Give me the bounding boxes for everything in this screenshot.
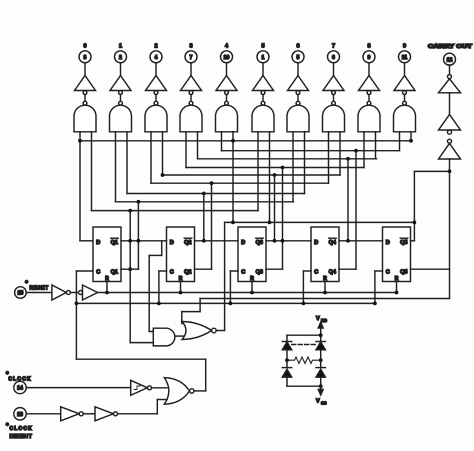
decode AND gate G2: [145, 105, 167, 132]
inhibit buffer U4 bubble: [114, 412, 118, 416]
wire FF4 R stub: [324, 282, 326, 293]
wire clock feed vertical: [75, 303, 77, 359]
junction reset line at R stub: [250, 291, 254, 295]
wire carry B1 to B2: [449, 93, 451, 115]
wire pin2 to buffer: [120, 63, 122, 76]
buffer A5 input bubble: [261, 91, 265, 95]
wire track J: [225, 221, 415, 223]
wire FF4 clock riser: [302, 271, 304, 303]
wire Q1bar jog to AND gate: [161, 241, 163, 256]
svg-text:V: V: [316, 399, 320, 405]
wire correction NOR top input jog: [199, 299, 201, 312]
buffer A7 input bubble: [332, 91, 336, 95]
buffer A3 input bubble: [189, 91, 193, 95]
wire buffer A2 to gate G2: [155, 95, 157, 102]
junction Q4bar riser on D wire: [346, 239, 350, 243]
svg-text:2: 2: [154, 44, 157, 50]
wire diode D4 bottom: [320, 377, 322, 386]
wire Q1bar to AND gate input: [130, 342, 153, 344]
wire carry chain input: [449, 159, 451, 171]
svg-text:Q3: Q3: [256, 240, 263, 246]
wire FF3 C input stub: [230, 270, 238, 272]
svg-text:12: 12: [447, 57, 453, 63]
wire gate G1 left input leg: [115, 132, 117, 202]
buffer A8 output stage: [359, 76, 380, 91]
svg-text:Q5: Q5: [400, 240, 407, 246]
svg-text:Q1: Q1: [111, 270, 118, 276]
svg-text:4: 4: [155, 55, 158, 61]
svg-text:D: D: [314, 240, 318, 246]
wire buffer A3 to gate G3: [190, 95, 192, 102]
resistor R1: [287, 357, 321, 363]
wire pin5 to buffer: [297, 63, 299, 76]
gate G8 output bubble: [367, 101, 371, 105]
wire gate G8 right input leg: [375, 132, 377, 159]
carry buffer B3 output bubble: [448, 139, 452, 143]
junction on track E: [161, 173, 165, 177]
wire buffer A5 to gate G5: [262, 95, 264, 102]
junction on track D: [281, 166, 285, 170]
reset buffer U2: [83, 285, 98, 300]
wire gate G8 left input leg: [363, 132, 365, 168]
pin 10 circle OUT4: [221, 51, 233, 63]
junction Q1 riser on Q1 wire: [128, 267, 132, 271]
junction clock line FF2 riser: [157, 302, 161, 306]
wire FF5 R stub: [396, 282, 398, 293]
svg-text:14: 14: [17, 386, 23, 392]
wire buffer A8 to gate G8: [368, 95, 370, 102]
wire gate G1 right input leg: [126, 132, 128, 194]
pin 2 circle OUT1: [115, 51, 127, 63]
svg-text:5: 5: [297, 55, 300, 61]
svg-text:Q2: Q2: [184, 270, 191, 276]
diode D3: [282, 369, 291, 377]
svg-text:1: 1: [262, 55, 265, 61]
wire dashed gate link: [292, 344, 316, 346]
junction reset line at R stub: [395, 291, 399, 295]
VDD arrow: [318, 322, 323, 330]
wire protection bottom link: [287, 385, 321, 387]
junction VDD rail top: [319, 333, 323, 337]
wire pin4 to buffer: [155, 63, 157, 76]
svg-text:1: 1: [119, 44, 122, 50]
gate G9 output bubble: [403, 101, 407, 105]
clock NOR gate: [164, 378, 189, 405]
wire diode D2 to node: [320, 350, 322, 360]
correction AND gate: [153, 328, 175, 346]
junction Q3 riser on D wire: [281, 239, 285, 243]
junction clock line FF3 riser: [229, 302, 233, 306]
wire track D: [186, 167, 364, 169]
buffer A6 output stage: [288, 76, 309, 91]
correction NOR gate: [182, 322, 212, 340]
junction on track I: [128, 209, 132, 213]
svg-text:7: 7: [332, 44, 335, 50]
wire node to diode D3: [286, 360, 288, 367]
svg-text:Q3: Q3: [256, 270, 263, 276]
wire track E: [163, 174, 341, 176]
wire gate G3 right input leg: [197, 132, 199, 159]
wire U1 to U2: [70, 292, 78, 294]
wire reset distribution line: [98, 292, 397, 294]
wire Q4 stub: [339, 268, 356, 270]
wire Q1bar to FF2 D: [121, 240, 167, 242]
schmitt trigger clock buffer: [131, 380, 148, 395]
wire FF1 R stub: [106, 282, 108, 293]
svg-text:Q5: Q5: [400, 270, 407, 276]
wire Q1 riser: [137, 202, 139, 269]
junction clock line left end: [75, 302, 79, 306]
schmitt buffer output bubble: [148, 386, 152, 390]
wire VDD rail: [320, 331, 322, 342]
wire FF5 C input stub: [375, 270, 383, 272]
wire gate G4 right leg to track J: [232, 141, 234, 223]
wire pin13 to inhibit inverter: [26, 413, 60, 415]
svg-text:13: 13: [17, 412, 23, 418]
wire pin6 to buffer: [333, 63, 335, 76]
pin 5 circle OUT6: [292, 51, 304, 63]
gate G2 output bubble: [154, 101, 158, 105]
decode AND gate G8: [358, 105, 380, 132]
wire Q5 riser to carry: [449, 171, 451, 269]
diode D1: [282, 342, 291, 350]
wire Q3bar to FF4 D: [266, 240, 311, 242]
junction on track A: [78, 139, 82, 143]
wire track C: [199, 158, 377, 160]
svg-text:10: 10: [224, 55, 230, 61]
svg-text:INHIBIT: INHIBIT: [10, 434, 33, 440]
wire gate G4 left input leg: [221, 132, 223, 151]
wire Q2 stub: [195, 268, 212, 270]
wire gate G3 left input leg: [185, 132, 187, 168]
gate G4 output bubble: [225, 101, 229, 105]
buffer A0 output stage: [75, 76, 96, 91]
junction Q1bar riser on D wire: [128, 239, 132, 243]
svg-text:3: 3: [189, 44, 192, 50]
decode AND gate G7: [323, 105, 345, 132]
wire gate G5 left input leg: [257, 132, 259, 211]
junction on track G: [202, 192, 206, 196]
svg-text:*: *: [25, 280, 28, 287]
decode AND gate G1: [110, 105, 132, 132]
wire pin11 to buffer: [404, 63, 406, 76]
wire correction NOR output: [216, 330, 224, 332]
svg-text:C: C: [386, 270, 390, 276]
carry buffer B2: [439, 115, 461, 131]
svg-text:5: 5: [261, 44, 264, 50]
wire track G: [127, 193, 305, 195]
wire Q5 correction line: [449, 269, 451, 298]
wire track H: [116, 201, 294, 203]
junction on track A: [231, 139, 235, 143]
pin 14 circle CLOCK: [14, 381, 26, 393]
wire pin1 to buffer: [262, 63, 264, 76]
svg-text:C: C: [314, 270, 318, 276]
buffer A8 input bubble: [367, 91, 371, 95]
wire gate G5 right input leg: [269, 132, 271, 223]
flip-flop FF1 body: [93, 227, 121, 282]
buffer A2 output stage: [146, 76, 167, 91]
buffer A2 input bubble: [154, 91, 158, 95]
buffer A4 input bubble: [225, 91, 229, 95]
svg-text:7: 7: [190, 55, 193, 61]
correction NOR bubble: [212, 328, 217, 333]
svg-text:D: D: [386, 240, 390, 246]
wire U3 to U4: [83, 413, 95, 415]
decode AND gate G4: [216, 105, 238, 132]
svg-text:Q2: Q2: [184, 240, 191, 246]
wire buffer A4 to gate G4: [226, 95, 228, 102]
wire Q3 riser: [282, 168, 284, 270]
wire gate G7 left input leg: [328, 132, 330, 183]
svg-text:V: V: [316, 316, 320, 322]
inhibit inverter U3: [61, 407, 79, 421]
junction Q1 riser on D wire: [137, 239, 141, 243]
junction carry input node: [448, 170, 452, 174]
gate G5 output bubble: [261, 101, 265, 105]
svg-text:8: 8: [367, 44, 370, 50]
svg-text:Q4: Q4: [329, 270, 337, 276]
wire buffer A0 to gate G0: [84, 95, 86, 102]
wire clock NOR output: [194, 390, 206, 392]
gate G7 output bubble: [332, 101, 336, 105]
wire buffer A6 to gate G6: [297, 95, 299, 102]
wire FF2 clock riser: [158, 271, 160, 303]
wire FF3 R stub: [251, 282, 253, 293]
junction on track B: [354, 149, 358, 153]
gate G1 output bubble: [119, 101, 123, 105]
buffer A5 output stage: [253, 76, 274, 91]
wire Q5bar feedback to FF1 D input: [79, 141, 81, 241]
diode D2: [316, 342, 325, 350]
wire pin15 to reset buffer: [26, 292, 52, 294]
wire Q5 stub: [411, 268, 450, 270]
wire pin3 to buffer: [84, 63, 86, 76]
inhibit buffer U4: [95, 407, 113, 421]
wire Q2 riser: [211, 183, 213, 269]
wire Q1 stub: [121, 268, 138, 270]
svg-text:C: C: [96, 270, 100, 276]
junction VSS rail: [319, 384, 323, 388]
pin 7 circle OUT3: [185, 51, 197, 63]
junction reset line at R stub: [323, 291, 327, 295]
svg-text:D: D: [170, 240, 174, 246]
reset inverter U1 bubble: [66, 291, 70, 295]
wire pin12 to buffer chain: [449, 65, 451, 75]
junction on track A: [409, 139, 413, 143]
wire gate G0 left input leg: [79, 132, 81, 141]
buffer A3 output stage: [181, 76, 202, 91]
wire gate G6 right input leg: [304, 132, 306, 194]
reset inverter U1: [52, 285, 66, 300]
junction Q2bar riser on D wire: [202, 239, 206, 243]
reset buffer U2 input bubble: [79, 291, 83, 295]
svg-text:9: 9: [403, 44, 406, 50]
wire Q3 stub: [266, 268, 283, 270]
svg-text:4: 4: [225, 44, 229, 50]
diode D4: [316, 369, 325, 377]
buffer A7 output stage: [323, 76, 344, 91]
wire protection left bottom: [286, 377, 288, 386]
carry buffer B1 output bubble: [448, 75, 452, 79]
wire AND to NOR: [175, 335, 189, 337]
pin 12 circle CARRY OUT: [444, 53, 456, 65]
wire pin9 to buffer: [368, 63, 370, 76]
svg-text:DD: DD: [321, 318, 327, 323]
buffer A6 input bubble: [296, 91, 300, 95]
wire FF2 C input stub: [159, 270, 167, 272]
svg-text:CLOCK: CLOCK: [10, 426, 33, 432]
svg-text:0: 0: [83, 44, 86, 50]
pin 13 circle CLOCK INHIBIT: [14, 408, 26, 420]
wire Q2bar riser: [203, 194, 205, 241]
svg-text:2: 2: [119, 55, 122, 61]
pin 15 circle RESET: [15, 287, 27, 299]
wire Q2bar to FF3 D: [195, 240, 239, 242]
svg-text:CARRY OUT: CARRY OUT: [428, 44, 473, 50]
decode AND gate G9: [394, 105, 416, 132]
wire FF1 clock riser: [75, 271, 77, 303]
flip-flop FF5 body: [383, 227, 411, 282]
svg-text:D: D: [241, 240, 245, 246]
wire Q5bar stub: [411, 240, 415, 242]
buffer A1 output stage: [110, 76, 131, 91]
svg-text:3: 3: [84, 55, 87, 61]
buffer A9 input bubble: [403, 91, 407, 95]
svg-text:D: D: [96, 240, 100, 246]
junction on track J: [231, 221, 235, 225]
svg-text:11: 11: [402, 55, 408, 61]
gate G0 output bubble: [83, 101, 87, 105]
wire Q1bar riser: [129, 211, 131, 343]
decode AND gate G6: [287, 105, 309, 132]
svg-text:6: 6: [332, 55, 335, 61]
wire track I: [92, 210, 259, 212]
svg-text:9: 9: [368, 55, 371, 61]
junction on track F: [210, 181, 214, 185]
wire Q4bar riser: [347, 159, 349, 241]
decode AND gate G0: [74, 105, 96, 132]
wire FF2 R stub: [180, 282, 182, 293]
junction on track H: [137, 200, 141, 204]
wire inhibit to clock NOR: [118, 413, 158, 415]
wire gate G0 right input leg: [91, 132, 93, 211]
decode AND gate G5: [252, 105, 274, 132]
svg-text:6: 6: [296, 44, 299, 50]
pin 6 circle OUT7: [328, 51, 340, 63]
junction Q3bar riser on D wire: [273, 239, 277, 243]
wire carry link to Q5bar feedback: [414, 170, 449, 172]
pin 11 circle OUT9: [399, 51, 411, 63]
flip-flop FF4 body: [311, 227, 339, 282]
pin 4 circle OUT2: [150, 51, 162, 63]
wire Q3bar riser: [274, 175, 276, 241]
wire protection left top: [286, 335, 288, 341]
wire gate G9 left input leg: [399, 132, 401, 151]
carry buffer B3: [439, 143, 461, 159]
wire buffer A7 to gate G7: [333, 95, 335, 102]
clock NOR output bubble: [190, 389, 194, 393]
junction clock line FF5 riser: [373, 302, 377, 306]
junction on track C: [346, 157, 350, 161]
wire FF1 C input stub: [76, 270, 93, 272]
wire gate G9 right input leg: [410, 132, 412, 141]
flip-flop FF2 body: [167, 227, 195, 282]
wire protection top link: [287, 334, 321, 336]
wire gate G2 left input leg: [150, 132, 152, 183]
svg-text:Q1: Q1: [111, 240, 118, 246]
junction reset line at R stub: [179, 291, 183, 295]
junction on track E: [273, 173, 277, 177]
junction on track J: [268, 221, 272, 225]
carry buffer B1: [439, 79, 461, 93]
junction protection right node: [319, 358, 323, 362]
pin 3 circle OUT0: [79, 51, 91, 63]
wire node to diode D4: [320, 360, 322, 367]
svg-text:SS: SS: [321, 401, 327, 406]
wire FF3 clock riser: [229, 271, 231, 303]
inhibit inverter U3 bubble: [79, 412, 83, 416]
wire Q4 riser: [355, 151, 357, 270]
buffer A9 output stage: [394, 76, 415, 91]
wire track A: [80, 140, 411, 142]
junction clock line FF4 riser: [302, 302, 306, 306]
wire gate G6 left input leg: [292, 132, 294, 202]
wire diode D1 to node: [286, 350, 288, 360]
svg-text:15: 15: [18, 291, 24, 297]
wire pin7 to buffer: [190, 63, 192, 76]
buffer A1 input bubble: [119, 91, 123, 95]
wire clock distribution line: [76, 302, 375, 304]
svg-text:C: C: [241, 270, 245, 276]
wire track B: [222, 150, 400, 152]
pin 9 circle OUT8: [363, 51, 375, 63]
wire buffer A1 to gate G1: [120, 95, 122, 102]
junction reset line at R stub: [105, 291, 109, 295]
wire schmitt to clock NOR: [152, 387, 167, 389]
buffer A0 input bubble: [83, 91, 87, 95]
wire FF5 clock riser: [374, 271, 376, 303]
gate G3 output bubble: [189, 101, 193, 105]
VSS arrow: [318, 386, 323, 395]
junction protection left node: [285, 358, 289, 362]
buffer A4 output stage: [216, 76, 237, 91]
svg-text:RESET: RESET: [30, 285, 49, 291]
wire clock feed horizontal: [76, 358, 205, 360]
decode AND gate G3: [180, 105, 202, 132]
wire buffer A9 to gate G9: [404, 95, 406, 102]
wire track F: [151, 182, 329, 184]
svg-text:C: C: [170, 270, 174, 276]
gate G6 output bubble: [296, 101, 300, 105]
pin 1 circle OUT5: [257, 51, 269, 63]
wire pin10 to buffer: [226, 63, 228, 76]
svg-text:Q4: Q4: [329, 240, 337, 246]
wire gate G7 right input leg: [339, 132, 341, 175]
wire Q4bar to FF5 D: [339, 240, 383, 242]
wire gate G4 right input leg: [232, 132, 234, 141]
wire gate G2 right input leg: [162, 132, 164, 175]
wire pin14 to schmitt buffer: [26, 387, 130, 389]
flip-flop FF3 body: [238, 227, 266, 282]
junction track J right end: [413, 221, 417, 225]
carry buffer B2 input bubble: [448, 130, 452, 134]
wire FF4 C input stub: [303, 270, 311, 272]
